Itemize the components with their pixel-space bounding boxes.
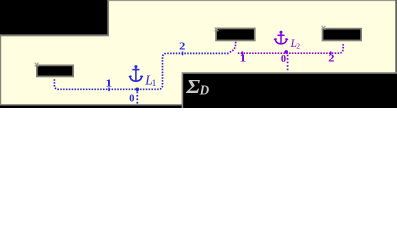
svg-text:2: 2 <box>328 53 335 64</box>
svg-text:1: 1 <box>240 52 247 64</box>
svg-text:1: 1 <box>105 77 112 89</box>
svg-text:0: 0 <box>129 94 134 105</box>
svg-text:2: 2 <box>296 41 300 50</box>
svg-text:1: 1 <box>152 79 157 89</box>
svg-text:0: 0 <box>281 54 286 65</box>
svg-text:D: D <box>199 82 210 97</box>
svg-text:2: 2 <box>179 41 186 52</box>
svg-text:Σ: Σ <box>185 75 200 98</box>
